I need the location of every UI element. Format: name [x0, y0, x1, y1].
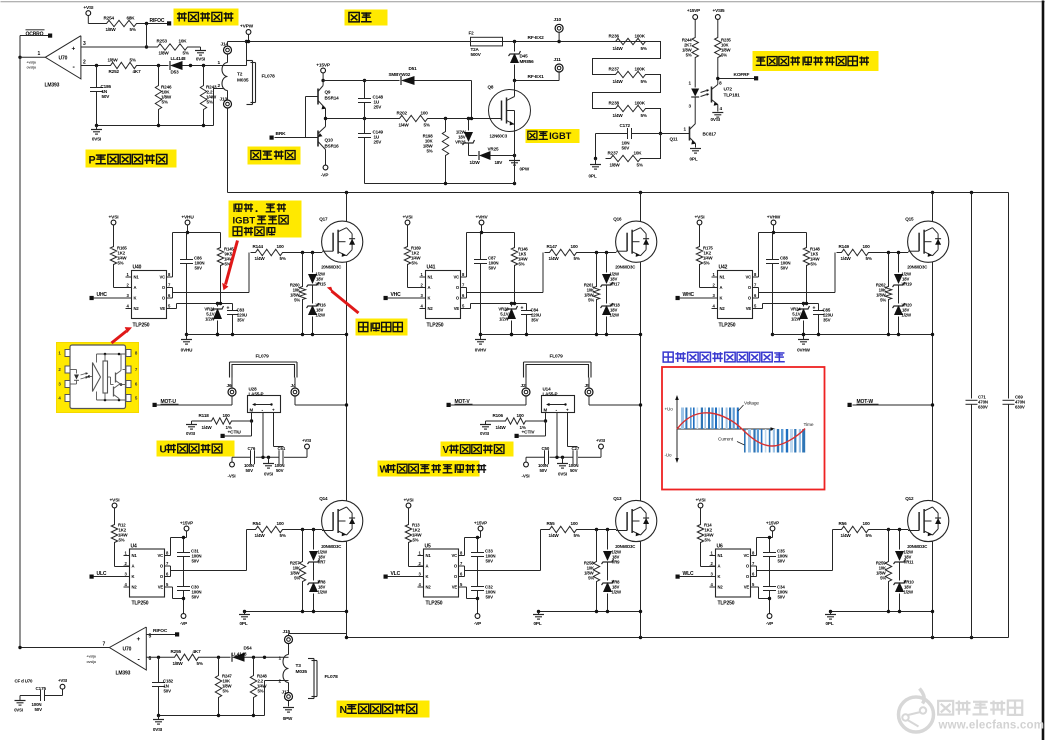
- capacitor C149: [358, 119, 383, 184]
- svg-text:N1: N1: [428, 275, 434, 280]
- svg-text:1/8W: 1/8W: [106, 27, 117, 32]
- svg-text:N1: N1: [426, 553, 432, 558]
- svg-text:1%: 1%: [226, 425, 232, 430]
- wire output: [751, 530, 837, 577]
- wire phase rail W: [932, 193, 934, 638]
- svg-text:1/4W: 1/4W: [613, 46, 624, 51]
- svg-text:RF-EX1: RF-EX1: [528, 74, 545, 80]
- svg-text:50V: 50V: [622, 146, 631, 151]
- wire: [114, 268, 132, 288]
- svg-text:Q8: Q8: [488, 85, 494, 90]
- svg-text:F2: F2: [469, 31, 475, 36]
- svg-text:N2: N2: [132, 585, 138, 590]
- zener VR10: [894, 563, 915, 612]
- capacitor C61: [275, 446, 286, 473]
- wire gate: [288, 251, 323, 254]
- svg-text:1/2W: 1/2W: [318, 590, 329, 595]
- svg-text:D54: D54: [244, 646, 253, 651]
- svg-text:VE: VE: [744, 585, 750, 590]
- svg-text:TLP250: TLP250: [426, 601, 443, 607]
- svg-text:20N60D3C: 20N60D3C: [321, 544, 341, 549]
- svg-text:+VPW: +VPW: [240, 24, 254, 30]
- resistor R238: [609, 101, 651, 119]
- svg-text:R54: R54: [253, 521, 262, 526]
- svg-text:5%: 5%: [574, 533, 580, 538]
- svg-text:D53: D53: [171, 70, 180, 75]
- svg-text:R55: R55: [547, 521, 556, 526]
- svg-text:100: 100: [863, 521, 871, 526]
- svg-text:1/8W: 1/8W: [173, 661, 184, 666]
- ground 0VSI (R253): [193, 47, 207, 62]
- svg-text:5%: 5%: [280, 256, 286, 261]
- zener VR8: [308, 563, 329, 612]
- capacitor C83: [227, 304, 247, 335]
- svg-text:RF-EX2: RF-EX2: [528, 35, 545, 41]
- svg-text:J10: J10: [554, 17, 562, 23]
- svg-text:+VSI5: +VSI5: [713, 8, 725, 13]
- svg-text:100: 100: [571, 244, 579, 249]
- resistor R118: [199, 413, 252, 430]
- wire KOFRF: [716, 61, 755, 86]
- svg-text:5%: 5%: [294, 576, 300, 581]
- svg-text:N2: N2: [718, 585, 724, 590]
- svg-text:+15VP: +15VP: [474, 521, 487, 526]
- capacitor C32: [471, 585, 495, 614]
- power +15VP (brake): [316, 63, 331, 83]
- svg-text:50V: 50V: [164, 689, 172, 694]
- svg-text:1/4W: 1/4W: [202, 425, 213, 430]
- svg-text:A: A: [720, 285, 723, 290]
- svg-text:RIFOC: RIFOC: [153, 628, 168, 634]
- svg-text:R236: R236: [609, 34, 620, 39]
- power -VSI: [228, 457, 236, 478]
- svg-text:0VSI: 0VSI: [153, 727, 162, 732]
- wire VCC rail: [173, 231, 221, 277]
- svg-text:18V: 18V: [495, 160, 504, 165]
- ground 0VHV: [475, 333, 513, 353]
- wire MOT-V: [451, 403, 643, 406]
- svg-text:J2: J2: [521, 383, 527, 389]
- svg-text:VE: VE: [452, 585, 458, 590]
- watermark name: [938, 701, 1022, 715]
- svg-text:U5: U5: [425, 544, 431, 550]
- svg-text:50V: 50V: [246, 468, 254, 473]
- svg-text:1/2W: 1/2W: [470, 160, 481, 165]
- resistor R56: [837, 521, 874, 538]
- svg-text:5%: 5%: [880, 298, 886, 303]
- resistor R146: [511, 233, 528, 304]
- svg-text:5%: 5%: [641, 79, 647, 84]
- zener VR7: [308, 530, 329, 565]
- svg-text:5%: 5%: [637, 163, 643, 168]
- ground 0VSI (caps): [557, 457, 568, 476]
- capacitor C27: [569, 446, 580, 473]
- capacitor C84: [521, 304, 541, 335]
- svg-text:R253: R253: [157, 39, 168, 44]
- optocoupler U72 TLP181: [689, 61, 741, 113]
- label V相电流检测: [441, 442, 514, 457]
- svg-text:VR9: VR9: [612, 560, 621, 565]
- svg-text:0PL: 0PL: [826, 621, 834, 626]
- svg-text:Q17: Q17: [319, 217, 328, 222]
- svg-text:R237: R237: [608, 151, 619, 156]
- svg-text:4K7: 4K7: [193, 649, 202, 654]
- wire: [507, 40, 611, 43]
- svg-text:1/8W: 1/8W: [610, 163, 621, 168]
- resistor R236: [609, 34, 651, 52]
- resistor R12: [111, 522, 128, 546]
- svg-text:100: 100: [277, 521, 285, 526]
- svg-text:5%: 5%: [258, 689, 264, 694]
- svg-text:N2: N2: [428, 306, 434, 311]
- transistor Q8 12N60C3 (brake IGBT): [488, 85, 531, 139]
- svg-text:0VSI: 0VSI: [480, 431, 489, 436]
- resistor R237: [609, 67, 651, 85]
- svg-text:0VSI: 0VSI: [92, 137, 101, 142]
- transistor Q14 IGBT: [319, 496, 363, 549]
- label 分压指定IGBT发射极参考电位: [229, 201, 302, 238]
- svg-text:K: K: [134, 296, 137, 301]
- svg-text:Q16: Q16: [613, 217, 622, 222]
- svg-text:VC: VC: [157, 553, 163, 558]
- svg-text:+: +: [813, 306, 816, 312]
- resistor R252: [106, 58, 142, 75]
- svg-text:R202: R202: [397, 111, 408, 116]
- svg-text:Q14: Q14: [319, 496, 328, 501]
- svg-text:5%: 5%: [588, 298, 594, 303]
- wire: [408, 268, 426, 288]
- connector J15: [283, 629, 293, 655]
- svg-text:+VSI: +VSI: [58, 678, 67, 683]
- opto-driver U42 TLP250: [712, 265, 759, 329]
- power +VSI (sense): [592, 438, 606, 457]
- label 制动IGBT: [526, 129, 580, 143]
- svg-text:50V: 50V: [102, 94, 111, 99]
- power +VSI (sense): [298, 438, 312, 457]
- svg-text:100: 100: [517, 413, 525, 418]
- zener VR17: [601, 253, 621, 288]
- svg-text:1/8W: 1/8W: [159, 51, 170, 56]
- svg-text:TLP181: TLP181: [724, 93, 741, 99]
- wire gate Q8: [433, 81, 490, 121]
- svg-text:C76: C76: [248, 446, 256, 451]
- svg-text:K: K: [428, 296, 431, 301]
- zener VR19: [893, 253, 913, 288]
- svg-text:N2: N2: [426, 585, 432, 590]
- power +15VP (monitor): [687, 8, 700, 35]
- svg-text:1/2W: 1/2W: [904, 590, 915, 595]
- svg-text:U4: U4: [131, 544, 137, 550]
- node WLC: [676, 571, 710, 579]
- svg-text:5%: 5%: [207, 100, 213, 105]
- svg-text:1/4W: 1/4W: [841, 533, 852, 538]
- diode D45 MR856: [509, 42, 535, 81]
- svg-text:VR26: VR26: [455, 140, 466, 145]
- svg-text:FL079: FL079: [256, 354, 270, 360]
- svg-text:+15VP: +15VP: [766, 521, 779, 526]
- arrow divider note: [222, 241, 237, 291]
- label Voltage: [738, 401, 759, 412]
- resistor R261: [584, 253, 600, 335]
- ground 0VSI (caps): [263, 457, 274, 476]
- zener VR8: [602, 563, 623, 612]
- svg-text:20N60D3C: 20N60D3C: [907, 265, 927, 270]
- wire VCC rail: [467, 231, 515, 277]
- wire VC: [751, 538, 757, 556]
- svg-text:50V: 50V: [570, 468, 578, 473]
- node UHC: [90, 292, 126, 300]
- power +15VP: [171, 521, 194, 538]
- resistor R244: [682, 35, 699, 61]
- ground 0PW (N): [283, 708, 294, 722]
- wire: [289, 634, 349, 640]
- svg-text:1: 1: [38, 51, 41, 57]
- resistor R260: [290, 253, 306, 335]
- opto-driver U40 TLP250: [126, 265, 173, 329]
- power +VSI (WHC driver): [695, 215, 706, 244]
- wire emitter rail: [773, 333, 935, 336]
- fuse F2: [467, 31, 507, 58]
- zener VR15: [307, 253, 327, 288]
- svg-text:+Uo: +Uo: [665, 407, 674, 412]
- svg-text:+VSI: +VSI: [404, 498, 415, 504]
- wire emitter tie: [243, 610, 348, 615]
- svg-text:Q15: Q15: [905, 217, 914, 222]
- svg-text:C61: C61: [278, 446, 286, 451]
- svg-text:ovsija: ovsija: [27, 66, 37, 70]
- capacitor C175: [20, 686, 63, 712]
- svg-text:U72: U72: [724, 87, 733, 93]
- power +VSI (P-side): [83, 5, 94, 23]
- svg-text:M035: M035: [296, 669, 308, 675]
- svg-text:5%: 5%: [705, 538, 711, 543]
- svg-text:FL078: FL078: [262, 74, 276, 80]
- svg-text:TLP250: TLP250: [719, 323, 736, 329]
- svg-text:A: A: [428, 285, 431, 290]
- node MOT-W: [848, 399, 879, 407]
- ground 0PL (divider): [589, 159, 602, 179]
- node WHC: [676, 292, 712, 300]
- svg-text:V: V: [443, 445, 450, 456]
- resistor R14: [697, 522, 714, 546]
- resistor R243: [200, 66, 217, 126]
- svg-text:-Uo: -Uo: [665, 453, 673, 458]
- svg-text:+vsija: +vsija: [27, 61, 37, 65]
- resistor R145: [217, 233, 234, 304]
- arrow clamp note: [327, 287, 359, 313]
- connector J14: [221, 42, 232, 63]
- wire DC- bus: [347, 636, 1009, 639]
- svg-text:5%: 5%: [119, 538, 125, 543]
- resistor R55: [545, 521, 582, 538]
- svg-text:+VSI: +VSI: [110, 498, 121, 504]
- power +VHV: [475, 215, 488, 233]
- node MOT-V: [447, 399, 473, 407]
- wire DC+ bus: [228, 191, 1009, 194]
- svg-text:ovsija: ovsija: [87, 660, 97, 664]
- svg-text:VC: VC: [451, 553, 457, 558]
- capacitor C76: [244, 446, 256, 473]
- wire emitter tie: [537, 610, 642, 615]
- svg-text:M: M: [544, 408, 548, 413]
- svg-text:68K: 68K: [127, 16, 136, 21]
- resistor R13: [405, 522, 422, 546]
- wire RF-EX1: [513, 74, 559, 82]
- svg-text:D51: D51: [409, 66, 418, 71]
- svg-text:U6: U6: [717, 544, 723, 550]
- wire: [694, 113, 696, 124]
- wire VE: [459, 587, 480, 600]
- wire sense rails: [557, 413, 578, 458]
- zener VR23: [498, 304, 517, 335]
- svg-text:5%: 5%: [519, 262, 525, 267]
- wire: [228, 40, 249, 66]
- capacitor C87: [474, 233, 498, 335]
- connector J2: [521, 378, 531, 406]
- svg-text:50V: 50V: [486, 595, 494, 600]
- svg-text:OCBRO: OCBRO: [26, 32, 44, 38]
- svg-text:TLP250: TLP250: [133, 323, 150, 329]
- svg-text:BSR16: BSR16: [325, 144, 340, 149]
- border frame top: [1, 1, 1045, 3]
- border frame right: [1042, 1, 1045, 740]
- resistor R106: [493, 413, 546, 430]
- svg-text:U40: U40: [133, 265, 142, 271]
- power +VSI (ULC driver): [110, 498, 121, 522]
- wire sense rails: [263, 413, 284, 458]
- resistor R198: [423, 119, 449, 184]
- op-amp U70a LM393: [27, 36, 87, 89]
- wire: [157, 681, 286, 718]
- resistor R258: [584, 530, 600, 612]
- svg-text:U70: U70: [123, 647, 132, 653]
- resistor R248: [250, 657, 267, 715]
- transistor Q15 IGBT: [905, 217, 949, 270]
- svg-text:100: 100: [277, 244, 285, 249]
- node +CTIV: [515, 430, 536, 439]
- transistor Q16 IGBT: [613, 217, 657, 270]
- svg-text:1/4W: 1/4W: [496, 425, 507, 430]
- svg-text:35V: 35V: [237, 318, 245, 323]
- svg-text:+VSI: +VSI: [695, 215, 706, 221]
- label P端主电流检测: [86, 150, 177, 168]
- wire: [651, 109, 663, 136]
- wire cap rail: [526, 456, 592, 459]
- svg-text:A: A: [132, 564, 135, 569]
- svg-text:R254: R254: [104, 16, 115, 21]
- svg-text:R149: R149: [839, 244, 850, 249]
- zener VR21: [204, 304, 223, 335]
- label 母线电压偏高信号输出: [753, 51, 879, 71]
- svg-text:Q11: Q11: [670, 137, 679, 142]
- node net stub: [87, 655, 97, 665]
- svg-text:1/2W: 1/2W: [610, 313, 621, 318]
- resistor R144: [251, 244, 288, 261]
- zener VR11: [894, 530, 915, 565]
- node CF d U70: [15, 679, 34, 684]
- capacitor C172: [596, 123, 661, 151]
- svg-text:1/8W: 1/8W: [108, 58, 119, 63]
- svg-text:-VP: -VP: [474, 621, 481, 626]
- power +VPW: [240, 24, 254, 42]
- svg-text:500V: 500V: [471, 52, 482, 57]
- wire: [115, 546, 130, 567]
- svg-text:CF d U70: CF d U70: [15, 679, 34, 684]
- svg-text:0VSI: 0VSI: [558, 472, 567, 477]
- transistor Q17 IGBT: [319, 217, 363, 270]
- svg-text:5%: 5%: [183, 51, 189, 56]
- svg-text:+: +: [521, 306, 524, 312]
- svg-text:VE: VE: [454, 306, 460, 311]
- svg-text:5%: 5%: [130, 58, 136, 63]
- svg-text:5%: 5%: [424, 123, 430, 128]
- svg-text:Q13: Q13: [613, 496, 622, 501]
- capacitor C182: [152, 657, 174, 715]
- svg-text:N2: N2: [720, 306, 726, 311]
- svg-text:+vsija: +vsija: [87, 655, 97, 659]
- svg-text:M: M: [250, 408, 254, 413]
- ground 0VSI (U72): [711, 105, 724, 123]
- node OCBRO: [20, 30, 52, 38]
- svg-text:TLP250: TLP250: [718, 601, 735, 607]
- svg-text:+VSI: +VSI: [302, 438, 311, 443]
- ground 0PL: [825, 615, 836, 627]
- svg-text:+CTIV: +CTIV: [522, 430, 536, 436]
- wire: [701, 546, 716, 567]
- wire emitter node: [324, 109, 395, 127]
- node BRK: [270, 131, 287, 140]
- svg-text:WHC: WHC: [683, 292, 695, 298]
- capacitor C33: [471, 536, 495, 587]
- label N端主电流检测: [337, 701, 430, 718]
- svg-text:U41: U41: [427, 265, 436, 271]
- svg-text:T3: T3: [296, 663, 302, 669]
- wire phase rail U: [346, 193, 348, 638]
- svg-text:1/2W: 1/2W: [612, 590, 623, 595]
- wire VC: [165, 538, 171, 556]
- inset TLP250 internal diagram: [57, 343, 139, 413]
- resistor R175: [696, 244, 713, 268]
- wire snake: [593, 75, 661, 109]
- wire: [142, 22, 168, 25]
- svg-text:+VSI: +VSI: [403, 215, 414, 221]
- svg-text:1/2W: 1/2W: [316, 313, 327, 318]
- svg-text:100: 100: [863, 244, 871, 249]
- svg-text:IGBT: IGBT: [549, 131, 572, 141]
- svg-text:R237: R237: [609, 67, 620, 72]
- svg-text:C172: C172: [620, 123, 631, 128]
- capacitor C85: [813, 304, 833, 335]
- ground 0VHU: [181, 333, 220, 353]
- ground 0PL (Q11): [690, 144, 702, 162]
- wire main bus top: [228, 40, 471, 43]
- svg-text:0VSI: 0VSI: [14, 708, 22, 713]
- svg-text:1/4W: 1/4W: [841, 256, 852, 261]
- wire gate: [582, 251, 617, 254]
- svg-text:U70: U70: [59, 56, 68, 62]
- diode D53 LL4148: [170, 56, 186, 75]
- zener VR25: [469, 147, 517, 166]
- current sensor U14 LA55-P: [542, 387, 575, 414]
- svg-text:J13: J13: [220, 97, 228, 103]
- wire M: [519, 413, 548, 437]
- svg-text:VR11: VR11: [904, 560, 915, 565]
- zener VR26: [455, 119, 474, 156]
- svg-text:1/2W: 1/2W: [791, 317, 802, 322]
- svg-text:5%: 5%: [412, 261, 418, 266]
- svg-text:+VSI: +VSI: [83, 5, 94, 11]
- svg-text:M035: M035: [237, 78, 249, 84]
